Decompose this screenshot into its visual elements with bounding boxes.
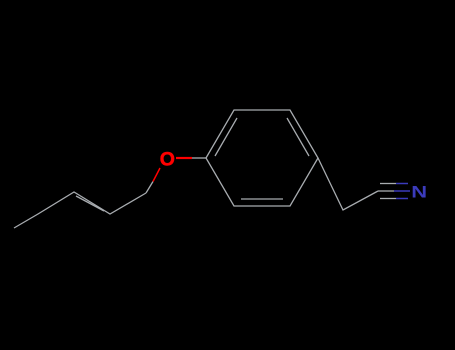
- svg-text:N: N: [411, 183, 427, 202]
- svg-text:O: O: [160, 149, 175, 171]
